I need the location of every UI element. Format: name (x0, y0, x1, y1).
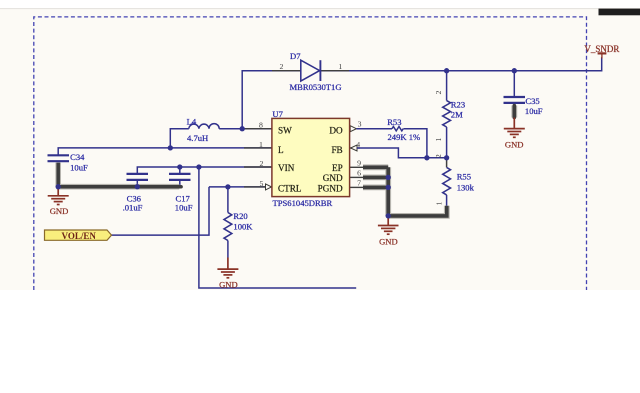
wire top rail left (diode anode net from SW) (242, 71, 301, 129)
node thick GND pin6 (386, 175, 391, 180)
svg-text:2: 2 (434, 90, 443, 94)
wire FB net (357, 148, 447, 158)
node C34 bottom (56, 184, 61, 189)
node C36 bottom (135, 184, 140, 189)
svg-text:2: 2 (280, 62, 284, 71)
wire C35 stem (513, 71, 515, 97)
resistor R20 (227, 187, 229, 213)
svg-text:9: 9 (357, 159, 361, 168)
svg-text:1: 1 (259, 140, 263, 149)
svg-text:2: 2 (434, 154, 443, 158)
node top rail R23 (444, 68, 449, 73)
IC U7 body (272, 118, 350, 196)
wire CTRL row (209, 186, 272, 188)
svg-text:R23: R23 (451, 100, 465, 110)
gnd symbol under C34 (48, 187, 69, 205)
svg-text:249K 1%: 249K 1% (388, 132, 421, 142)
svg-text:R53: R53 (387, 117, 401, 127)
diode D7 (301, 60, 321, 81)
power port V_SNDR (598, 53, 607, 58)
DO output arrow (350, 126, 356, 132)
wire SW row (170, 129, 272, 148)
svg-text:L4: L4 (187, 117, 197, 127)
wire DO net (356, 129, 427, 158)
svg-text:GND: GND (50, 206, 69, 216)
svg-text:EP: EP (332, 163, 343, 173)
node VIN/gnd-rail (196, 164, 201, 169)
svg-text:DO: DO (329, 126, 343, 136)
svg-text:R55: R55 (457, 171, 471, 181)
thick stub under C17 (179, 185, 181, 189)
gnd symbol under C35 (504, 118, 525, 138)
svg-text:1: 1 (338, 62, 342, 71)
svg-text:.01uF: .01uF (123, 203, 143, 213)
node FB/R53 (424, 155, 429, 160)
node FB/R23/R55 (444, 155, 449, 160)
svg-text:SW: SW (278, 126, 292, 136)
toolbar fragment (black bar) (599, 9, 640, 16)
resistor R55 (446, 158, 448, 168)
svg-text:GND: GND (219, 279, 238, 289)
svg-text:5: 5 (260, 179, 264, 188)
svg-text:VOL/EN: VOL/EN (62, 231, 97, 241)
thick stub under C35 (511, 106, 517, 118)
svg-text:R20: R20 (233, 211, 247, 221)
sheet dashed border (34, 17, 587, 290)
svg-text:TPS61045DRBR: TPS61045DRBR (273, 198, 333, 208)
capacitor C34 (48, 155, 70, 161)
capacitor C36 (127, 174, 149, 180)
IC U7 pin stubs left (244, 129, 272, 187)
svg-text:2: 2 (260, 159, 264, 168)
svg-text:GND: GND (505, 139, 524, 149)
svg-text:PGND: PGND (318, 183, 343, 193)
sheet background (0, 9, 640, 290)
svg-text:VIN: VIN (278, 163, 295, 173)
resistor R53 (392, 126, 403, 130)
CTRL input arrow (266, 184, 272, 190)
svg-text:10uF: 10uF (70, 162, 88, 172)
svg-text:L: L (278, 145, 284, 155)
svg-text:4.7uH: 4.7uH (187, 133, 208, 143)
gnd symbol under R20 (217, 258, 238, 278)
svg-text:CTRL: CTRL (278, 183, 302, 193)
svg-text:GND: GND (379, 236, 398, 246)
svg-text:D7: D7 (290, 51, 301, 61)
svg-text:100K: 100K (233, 221, 253, 231)
svg-text:C35: C35 (525, 96, 539, 106)
node CTRL/R20 (225, 184, 230, 189)
inductor L4 (189, 124, 219, 129)
wire L row (58, 148, 272, 155)
capacitor C35 (504, 97, 526, 103)
wire C36 bottom stem (136, 180, 138, 187)
svg-text:MBR0530T1G: MBR0530T1G (290, 82, 342, 92)
wire C17 stem (179, 167, 181, 174)
svg-text:130k: 130k (457, 183, 475, 193)
gnd symbol under IC (378, 216, 399, 234)
svg-text:GND: GND (323, 173, 343, 183)
thick gnd trace EP/GND/PGND (363, 167, 447, 216)
svg-text:7: 7 (357, 179, 361, 188)
net label flag VOL/EN (45, 230, 112, 240)
svg-text:6: 6 (357, 169, 361, 178)
svg-text:1: 1 (434, 137, 443, 141)
svg-text:U7: U7 (272, 109, 283, 119)
svg-text:C34: C34 (70, 152, 85, 162)
thick gnd trace under C34 (57, 163, 180, 187)
svg-text:V_SNDR: V_SNDR (584, 44, 619, 54)
wire top rail right (V_SNDR net) (321, 57, 602, 70)
FB input arrow (351, 145, 357, 151)
wire VOL/EN to CTRL (112, 187, 210, 235)
node VIN/C17 (177, 164, 182, 169)
svg-text:1: 1 (434, 201, 443, 205)
svg-text:8: 8 (259, 121, 263, 130)
svg-text:FB: FB (331, 145, 342, 155)
diode D7 pin stubs (272, 70, 301, 72)
node L/inductor (168, 145, 173, 150)
resistor R23 (446, 71, 448, 101)
capacitor C17 (169, 174, 191, 180)
wire to bottom gnd rail (199, 167, 356, 288)
node thick GND pin7 (386, 185, 391, 190)
node top rail C35 (512, 68, 517, 73)
wire VIN row (137, 167, 272, 174)
svg-text:3: 3 (358, 120, 362, 129)
node thick GND corner (386, 213, 391, 218)
node SW/diode (240, 126, 245, 131)
svg-text:10uF: 10uF (175, 203, 193, 213)
wire C17 bottom stem (179, 180, 181, 187)
IC U7 pin stubs right (350, 129, 363, 188)
svg-text:10uF: 10uF (525, 106, 543, 116)
svg-text:2M: 2M (451, 109, 463, 119)
